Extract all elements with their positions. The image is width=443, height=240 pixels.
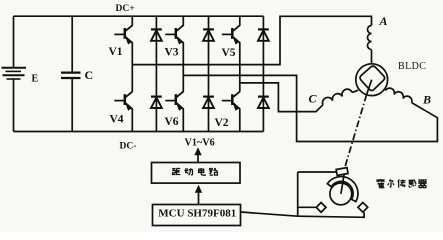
diode D5 upper leg 3 (258, 29, 269, 40)
wire bottom DC- rail (14, 131, 264, 133)
transistor V2 (222, 91, 240, 110)
inductor winding phase C (322, 89, 352, 105)
wire phase B from leg 2 midpoint (183, 75, 437, 141)
arrow drive to bridge (197, 154, 199, 163)
wire phase C from leg 3 midpoint (240, 83, 323, 112)
transistor V6 (165, 91, 183, 110)
svg-text:E: E (32, 74, 39, 85)
diode D3 upper leg 2 (203, 29, 214, 40)
diode D2 lower leg 1 (151, 97, 162, 108)
wire phase A to motor (371, 50, 373, 65)
svg-text:DC+: DC+ (116, 4, 135, 14)
motor rotor square (360, 66, 385, 91)
wire diode column 3 (262, 16, 264, 131)
svg-text:V1: V1 (109, 46, 123, 58)
svg-text:BLDC: BLDC (398, 61, 426, 72)
hall sensor left element (316, 202, 326, 212)
diode D1 upper leg 1 (151, 29, 162, 40)
wire phase A from leg 1 midpoint (132, 16, 371, 64)
wire hall top horizontal (298, 171, 337, 173)
transistor V3 (165, 25, 183, 44)
hall sensor top element (336, 168, 348, 176)
svg-text:C: C (309, 92, 318, 106)
wire hall sensor left vertical (297, 172, 299, 216)
svg-text:V6: V6 (165, 116, 179, 128)
battery E (2, 68, 27, 79)
wire diode column 1 (155, 16, 157, 131)
wire leg 3 transistor column (239, 16, 241, 131)
svg-text:B: B (422, 93, 431, 107)
wire left branch lower (13, 80, 15, 132)
svg-text:V1~V6: V1~V6 (185, 137, 215, 148)
motor BLDC outer circle (356, 64, 388, 96)
svg-text:DC-: DC- (120, 142, 137, 152)
svg-text:MCU SH79F081: MCU SH79F081 (158, 208, 236, 220)
inductor winding phase B (385, 88, 412, 102)
capacitor C1 (61, 16, 81, 131)
label hall sensor 霍尔传感器 (376, 179, 384, 188)
wire leg 2 transistor column (182, 16, 184, 131)
box drive circuit (152, 163, 241, 184)
svg-text:V3: V3 (165, 47, 179, 59)
wire diode column 2 (208, 16, 210, 131)
transistor V1 (114, 25, 132, 44)
svg-text:A: A (379, 14, 388, 28)
wire left branch upper (13, 16, 15, 67)
motor shaft line (367, 80, 372, 95)
hall sensor arc band (327, 177, 358, 202)
svg-text:V4: V4 (110, 114, 124, 126)
transistor V4 (114, 91, 132, 110)
wire top DC+ rail (14, 15, 264, 17)
box MCU (153, 205, 241, 226)
svg-text:C: C (85, 68, 94, 82)
svg-text:V2: V2 (215, 117, 229, 129)
wire phase C to motor (352, 90, 358, 92)
shaft dash-dot link to hall sensor (345, 95, 367, 169)
diode D4 lower leg 2 (203, 97, 214, 108)
inductor winding phase A (368, 26, 372, 50)
hall sensor rotor circle (330, 183, 352, 205)
text 驱动电路 (172, 169, 180, 175)
transistor V5 (222, 25, 240, 44)
diode D6 lower leg 3 (258, 97, 269, 108)
wire hall left branch (298, 206, 317, 208)
svg-text:V5: V5 (222, 47, 236, 59)
arrow MCU to drive circuit (198, 192, 200, 204)
wire leg 1 transistor column (131, 16, 133, 131)
wire hall bottom horizontal (298, 213, 364, 218)
hall shaft into rotor (341, 174, 344, 194)
wire MCU to hall sensor (241, 212, 298, 216)
hall sensor right element (358, 202, 368, 212)
